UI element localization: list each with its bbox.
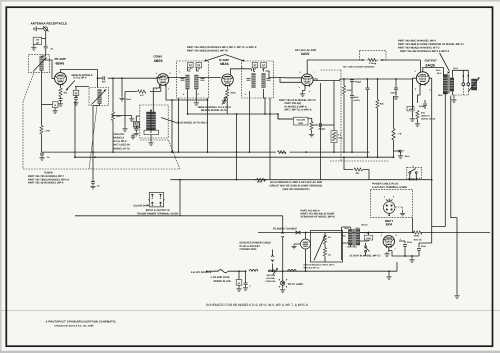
osc trimmer cap and ground	[134, 128, 138, 130]
svg-text:SPARK PLATE: SPARK PLATE	[214, 280, 232, 283]
arrow to output transformer	[440, 53, 450, 72]
wire T1 grid return drop	[177, 98, 179, 152]
svg-text:PILOT LAMP: PILOT LAMP	[288, 283, 303, 286]
wire V4 plate up	[307, 60, 360, 74]
pilot lamp	[281, 281, 285, 285]
svg-text:5M: 5M	[409, 108, 412, 111]
svg-text:A: A	[238, 282, 240, 285]
vibrator box	[311, 231, 343, 263]
vibrator box resistors	[323, 235, 326, 244]
wire rf coil return to ground	[92, 106, 94, 182]
svg-text:470K: 470K	[347, 89, 352, 92]
wire osc coil bottom	[150, 135, 152, 141]
svg-text:HIGH IN MODELS 2 MP-4, MP-C: HIGH IN MODELS 2 MP-4, MP-C	[304, 264, 336, 267]
svg-text:.01 500V IN MODEL MP-TU: .01 500V IN MODEL MP-TU	[349, 255, 381, 258]
T1 capacitors	[181, 79, 185, 81]
T3 primary bottom drop	[444, 93, 446, 227]
svg-text:VERSIONS OF MODEL MP-9): VERSIONS OF MODEL MP-9)	[301, 216, 335, 219]
vibrator box arrow	[314, 237, 325, 261]
trimmer M1 ground	[73, 101, 78, 105]
ground below 100uuf	[33, 44, 35, 45]
avc rail	[313, 78, 318, 80]
svg-text:6BA6: 6BA6	[56, 61, 65, 65]
svg-text:MP-7, MP-TU, & MPC-8: MP-7, MP-TU, & MPC-8	[285, 109, 313, 112]
tube V1 6BA6	[55, 73, 67, 85]
osc coil L3	[147, 112, 156, 130]
T2 trimmer Mb	[261, 63, 267, 70]
filter resistor 7B	[393, 96, 395, 129]
if transformer T1 shield (dashed)	[177, 61, 209, 98]
wire T1 returns	[188, 89, 197, 114]
b+ cap	[394, 150, 401, 152]
svg-text:(150V): (150V)	[354, 99, 361, 102]
osc coil slug arrow	[150, 110, 152, 133]
svg-text:MODEL W-TU): MODEL W-TU)	[421, 118, 435, 121]
wire drop x306 volume	[278, 114, 294, 119]
resistor R2 470	[138, 90, 147, 93]
volume wiper cap	[312, 124, 319, 126]
svg-text:FILAMENT SOURCE: FILAMENT SOURCE	[273, 227, 297, 230]
tuner outline dashed left	[23, 74, 34, 170]
V1 cathode ground	[58, 102, 63, 106]
speaker field return	[451, 96, 457, 295]
wire rf coil top to plate line	[97, 70, 99, 88]
heater bus drop from ground bus	[179, 180, 181, 216]
tube V5 6AQ5	[416, 72, 429, 85]
svg-text:(220Ω IN: (220Ω IN	[421, 115, 430, 118]
rf coil shield (dashed)	[89, 88, 109, 106]
svg-text:MPC-8 & MP-TU: MPC-8 & MP-TU	[304, 266, 320, 269]
resistor 470K on antenna return	[40, 126, 43, 135]
svg-text:µµf: µµf	[36, 41, 39, 44]
antenna receptacle jack	[44, 27, 48, 31]
tube V4 6AV6	[301, 74, 313, 86]
resistor 3.3meg	[368, 58, 377, 61]
T1 primary coil	[186, 75, 190, 89]
svg-text:(M) IN MODEL W-TU ONLY: (M) IN MODEL W-TU ONLY	[176, 122, 208, 125]
T2 capacitors	[247, 79, 251, 81]
osc trimmer M2	[134, 121, 140, 128]
T2 trimmer Ma	[252, 63, 258, 70]
svg-text:OUTPUT: OUTPUT	[425, 59, 438, 63]
output transformer T3	[443, 75, 447, 95]
svg-text:1Ω: 1Ω	[328, 254, 331, 257]
terminal B box	[113, 115, 132, 117]
svg-text:NOT USED IN SOME VERSIONS: NOT USED IN SOME VERSIONS	[343, 66, 375, 69]
svg-text:TRANSFORMER TERMINAL GUIDE: TRANSFORMER TERMINAL GUIDE	[137, 213, 179, 216]
svg-text:6BA6: 6BA6	[220, 62, 229, 66]
line bypass cap .1	[245, 271, 247, 282]
wire drop IF1 return	[207, 98, 209, 152]
terminal A2 box	[238, 271, 240, 279]
svg-text:6BE6: 6BE6	[154, 59, 163, 63]
resistor 3.3meg dashed box	[360, 51, 387, 60]
V6 cathode down	[388, 247, 390, 252]
svg-text:6AQ5: 6AQ5	[426, 63, 435, 67]
wire V4 diode out right	[313, 81, 334, 132]
T2 primary coil	[252, 74, 256, 88]
wire V2 screen down	[166, 85, 208, 100]
volume control box	[294, 117, 309, 125]
V5 plate wire blue	[423, 68, 444, 76]
pilot lamp wire	[282, 216, 284, 281]
svg-text:PART #54-180(3) IN MODEL MP-TU: PART #54-180(3) IN MODEL MP-TU	[187, 50, 228, 53]
switch 2 dashed box	[407, 167, 422, 178]
wire V3 plate	[231, 69, 252, 75]
svg-text:3.3meg: 3.3meg	[369, 62, 377, 65]
svg-text:meg: meg	[338, 137, 343, 140]
heater bus	[75, 215, 283, 217]
if transformer terminal guide box	[149, 193, 163, 207]
svg-text:COLOR DOT: COLOR DOT	[133, 205, 148, 208]
svg-text:(SEE S/N SCHEMATIC): (SEE S/N SCHEMATIC)	[283, 188, 310, 191]
plug connection symbol	[272, 250, 274, 272]
T1 trimmer Ma	[188, 63, 194, 70]
avc bus	[42, 151, 369, 153]
svg-text:NOT USED IN: NOT USED IN	[114, 144, 130, 147]
svg-text:6BJ6 IN MODEL W-TU: 6BJ6 IN MODEL W-TU	[201, 109, 227, 112]
svg-text:VOLUME: VOLUME	[296, 119, 306, 122]
svg-text:PART #63-482 IN MODELS WP-9 &: PART #63-482 IN MODELS WP-9 & MPC-8	[400, 50, 450, 53]
svg-text:BLK: BLK	[345, 227, 350, 230]
resistor 4.7meg box	[333, 143, 335, 153]
wire T1 input	[157, 77, 186, 79]
svg-text:A PHOTOFACT STANDARD NOTATI: A PHOTOFACT STANDARD NOTATION SCHEMATIC	[46, 320, 116, 323]
grid bypass cap	[121, 78, 123, 96]
filament wire	[258, 218, 490, 233]
power plug dashed lead	[395, 207, 403, 211]
ground bus 3	[170, 179, 431, 181]
wire detector return	[278, 114, 294, 119]
svg-text:ANTENNA RECEPTACLE: ANTENNA RECEPTACLE	[31, 22, 68, 26]
resistor 680ohm on ground bus	[254, 179, 256, 181]
wire antenna to coupling cap	[42, 38, 46, 56]
svg-text:MODEL W-TU: MODEL W-TU	[114, 147, 130, 150]
svg-text:SCHEMATIC FOR 8B MODELS D-9, D: SCHEMATIC FOR 8B MODELS D-9, DP-9, W-9, …	[206, 303, 308, 307]
fuse	[218, 270, 228, 273]
V5 cathode resistor 50	[416, 111, 419, 120]
svg-text:RED: RED	[356, 227, 361, 230]
T4 right wires	[360, 232, 384, 234]
svg-text:7+B: 7+B	[398, 133, 402, 136]
speaker terminals	[462, 83, 465, 86]
wire drop x236.6	[236, 114, 238, 180]
V1 cathode resistor	[60, 84, 62, 88]
svg-text:BLK RED: BLK RED	[348, 246, 358, 249]
tube V2 6BE6	[157, 74, 169, 86]
svg-text:300V DC: 300V DC	[414, 239, 423, 242]
bypass cap and ground on avc bus	[40, 153, 44, 155]
svg-text:500µµf: 500µµf	[355, 81, 362, 84]
switch 2	[409, 172, 411, 174]
cap .005mf	[395, 79, 397, 88]
wire V2 cathode to osc coil	[153, 85, 159, 112]
filter cap 1	[404, 241, 406, 256]
T1 trimmer Mb	[196, 63, 202, 70]
svg-text:©Howard W. Sams & Co., Inc. 19: ©Howard W. Sams & Co., Inc. 1960	[54, 325, 94, 328]
svg-text:D-9 & DP-9: D-9 & DP-9	[74, 77, 88, 80]
svg-text:50mf: 50mf	[354, 96, 359, 99]
coupling cap to V5	[367, 79, 369, 88]
b+ bus 2	[74, 156, 394, 158]
avc rail right	[334, 79, 412, 81]
V1 cathode bypass cap	[59, 99, 63, 101]
svg-text:470K: 470K	[45, 130, 50, 133]
svg-text:.05mf: .05mf	[126, 98, 132, 101]
svg-text:CONNECTION: CONNECTION	[240, 248, 257, 251]
antenna coil shield (dashed)	[29, 55, 50, 73]
V5 grid return	[412, 78, 416, 110]
T1 secondary coil	[195, 75, 199, 89]
V5 screen wire	[429, 78, 445, 226]
power cable guide box	[370, 189, 412, 217]
tube V3 6BA6	[222, 74, 234, 86]
extra bus dots	[171, 151, 173, 153]
svg-text:22K: 22K	[356, 172, 360, 175]
antenna coil L1	[40, 57, 44, 71]
filter cap 2	[418, 243, 420, 256]
box 5M	[407, 106, 414, 111]
svg-text:1 1/2 AMP FUSE: 1 1/2 AMP FUSE	[211, 276, 230, 279]
wire rf coil bottom down	[93, 104, 100, 106]
speaker voice coil	[472, 79, 477, 90]
volume pot	[308, 118, 312, 121]
svg-text:680Ω: 680Ω	[231, 91, 236, 94]
svg-text:20mf: 20mf	[421, 245, 426, 248]
svg-text:200Ω: 200Ω	[414, 235, 419, 238]
V3 cathode resistor 680	[227, 86, 229, 89]
svg-text:82K: 82K	[380, 103, 384, 106]
antenna coil slug arrow	[33, 58, 47, 72]
on-off switch	[365, 246, 367, 248]
wire drop x320.6 dashed	[321, 70, 389, 161]
T4 left wires	[342, 227, 351, 260]
cap 250uuf	[423, 104, 427, 106]
svg-text:RED: RED	[438, 94, 443, 97]
tuner dashed bar	[23, 168, 180, 170]
rf coil slug arrow	[92, 90, 107, 105]
rf coil L2	[98, 90, 102, 104]
wire T2 output to detector	[266, 71, 302, 82]
filter ground	[411, 256, 413, 258]
capacitor 100uuf box	[33, 37, 41, 44]
wire trimmer branch to bus2	[75, 87, 76, 158]
bottom supply line	[209, 270, 398, 272]
resistor 22K right	[344, 157, 353, 169]
svg-text:BLU: BLU	[454, 67, 459, 70]
coupling capacitor C2	[103, 76, 105, 80]
faint page separator line	[0, 309, 500, 311]
osc padder box	[144, 130, 159, 134]
svg-text:MODELS: MODELS	[114, 137, 125, 140]
svg-text:VOLUME: VOLUME	[266, 277, 276, 280]
V5 cathode	[418, 84, 421, 103]
speaker wires	[453, 70, 469, 82]
scan edge shading left	[0, 0, 2, 353]
wire T2 returns	[249, 91, 251, 152]
svg-text:4Ω: 4Ω	[328, 236, 331, 239]
svg-text:500K: 500K	[298, 122, 303, 125]
speaker return dashed	[453, 86, 469, 95]
wire V1 plate line	[61, 70, 98, 73]
svg-text:40mf: 40mf	[405, 155, 410, 158]
svg-text:50Ω: 50Ω	[421, 112, 425, 115]
wire T1 output	[198, 77, 220, 79]
resistor 2.2meg on avc bus	[278, 151, 287, 154]
resistor 470K	[343, 79, 345, 86]
converter grid ground	[124, 92, 126, 128]
svg-text:6X4: 6X4	[386, 223, 392, 227]
tube V6 6X4	[383, 236, 394, 247]
tuner link rf coil	[89, 106, 97, 169]
trimmer M1	[73, 90, 79, 97]
power plug	[383, 202, 395, 214]
terminal A box	[42, 104, 53, 106]
power transformer T4	[348, 230, 352, 246]
wire converter grid drop	[125, 86, 161, 91]
wire avc line under IF cans	[188, 113, 279, 115]
svg-text:#62-42: #62-42	[361, 224, 368, 227]
scan edge shading bottom	[0, 351, 500, 353]
tuner link osc	[169, 140, 181, 169]
svg-text:D-9 & DP-9: D-9 & DP-9	[114, 140, 128, 143]
spark plate chokes	[249, 270, 258, 272]
osc coil shield (dashed)	[140, 105, 168, 138]
svg-text:680Ω: 680Ω	[257, 181, 262, 184]
wire drop x270	[269, 98, 271, 180]
junction dots bus	[236, 179, 238, 181]
coupling capacitor .05	[44, 46, 48, 48]
svg-text:& SOCKET TERMINAL GUIDE: & SOCKET TERMINAL GUIDE	[372, 186, 407, 189]
if transformer T2 shield (dashed)	[242, 61, 274, 98]
svg-text:PART #51-1B IN MODEL WP-9: PART #51-1B IN MODEL WP-9	[28, 182, 64, 185]
cap 500uuf	[351, 78, 353, 81]
T2 secondary coil	[262, 74, 266, 88]
svg-text:100mf IN: 100mf IN	[114, 133, 125, 136]
wire coil bottom down	[41, 73, 43, 152]
svg-text:100V: 100V	[366, 237, 371, 240]
V4 cathode ground	[303, 85, 306, 92]
wire plate line to V5 grid	[360, 60, 420, 72]
scan edge shading top	[0, 0, 500, 2]
vibrator circle	[301, 239, 311, 249]
box 100V	[364, 235, 373, 240]
wire avc rail drop right	[411, 79, 413, 110]
wire grid V1 from coil	[44, 60, 55, 79]
svg-text:6AV6: 6AV6	[301, 52, 309, 56]
svg-text:A: A	[54, 104, 56, 107]
svg-text:CONTROL: CONTROL	[266, 280, 277, 283]
resistor 82K	[377, 79, 379, 100]
svg-text:20mf: 20mf	[407, 241, 412, 244]
svg-text:BLU: BLU	[436, 69, 441, 72]
resistor 1400 to avc	[112, 78, 114, 112]
svg-text:250µµf: 250µµf	[319, 127, 326, 130]
svg-text:2.2meg: 2.2meg	[279, 151, 287, 154]
svg-text:500 RPM: 500 RPM	[267, 274, 276, 277]
right end of supply line	[396, 262, 398, 271]
svg-text:BLU: BLU	[437, 72, 442, 75]
vibrator ground	[294, 243, 301, 246]
trimmer M1 capacitor	[74, 98, 78, 100]
